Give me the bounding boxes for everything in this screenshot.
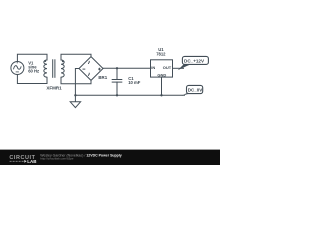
mark plus right: [98, 68, 101, 71]
svg-text:XFMR1: XFMR1: [46, 85, 62, 90]
wire C1 leads: [116, 68, 118, 79]
svg-text:http://circuitlab.com/c5pe: http://circuitlab.com/c5pe: [40, 157, 74, 161]
svg-text:BR1: BR1: [98, 75, 107, 80]
svg-text:60 Hz: 60 Hz: [28, 69, 39, 74]
node DC_0V flag: [181, 85, 202, 96]
secondary winding: [61, 60, 64, 77]
voltage source V1: [11, 62, 24, 75]
wire secondary bottom to bridge bottom: [61, 77, 91, 84]
footer bar: [0, 150, 220, 165]
ground: [70, 95, 80, 107]
svg-text:10 mF: 10 mF: [128, 80, 141, 85]
bridge rectifier BR1: [79, 57, 103, 81]
node DC_+12V flag: [178, 56, 209, 70]
wire regulator GND down: [161, 77, 163, 95]
wire bottom ground rail: [75, 94, 184, 96]
junction node C1 top: [116, 67, 118, 69]
wire bridge right vertex to regulator IN: [103, 67, 151, 69]
wire secondary top to bridge top: [61, 54, 91, 60]
mark ~ top: [87, 61, 90, 64]
footer CircuitLab logo: [9, 155, 37, 164]
label V1 value: [28, 61, 39, 74]
svg-text:IN: IN: [151, 65, 155, 70]
svg-text:DC_+12V: DC_+12V: [184, 59, 205, 64]
wire top rail V1 to primary: [17, 54, 47, 61]
label C1 value: [128, 76, 141, 85]
svg-text:OUT: OUT: [163, 65, 172, 70]
mark ~ bottom: [87, 73, 90, 76]
op-amp U1 regulator box: [151, 60, 173, 77]
svg-text:GND: GND: [157, 73, 166, 78]
polarity dot primary: [44, 60, 46, 62]
wire regulator OUT to flag: [173, 67, 184, 69]
mark minus left: [83, 68, 86, 70]
wire bottom rail V1 to primary: [17, 75, 47, 84]
wire bridge left vertex to ground rail: [75, 69, 79, 96]
junction node ground-left: [74, 94, 76, 96]
transformer XFMR1: [44, 59, 64, 78]
svg-text:7812: 7812: [156, 52, 166, 57]
capacitor C1: [112, 80, 123, 83]
core lines: [52, 59, 54, 78]
junction node C1 bottom: [116, 94, 118, 96]
polarity dot secondary: [62, 60, 64, 62]
svg-text:DC_0V: DC_0V: [188, 88, 203, 93]
primary winding: [44, 60, 47, 77]
junction node GND lead: [160, 94, 162, 96]
svg-text:LAB: LAB: [27, 159, 37, 164]
